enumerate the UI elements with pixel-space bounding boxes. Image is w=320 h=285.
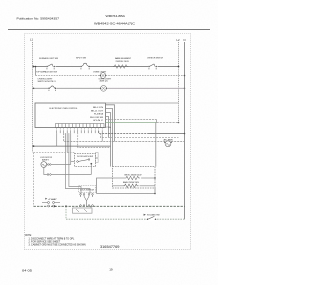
motor M2 convection fan: [164, 139, 174, 147]
motor M1 lock motor: [40, 157, 53, 167]
notes block: [25, 235, 86, 247]
wire lock assembly dashed left: [33, 153, 35, 207]
wire stub to terminal block: [90, 206, 92, 208]
svg-text:19: 19: [109, 267, 113, 271]
wire motor to connector: [46, 164, 49, 166]
wire EOC neutral feed green: [106, 122, 180, 124]
svg-text:316547769: 316547769: [100, 245, 120, 249]
wire lock motor feed: [33, 145, 111, 147]
switch S4 oven light switch: [48, 86, 56, 90]
wire element box right drop: [154, 188, 156, 194]
node arrow terminal on lower rung: [54, 205, 56, 207]
wire oven light rung: [36, 75, 101, 77]
svg-text:WRF54-8BA: WRF54-8BA: [106, 14, 127, 18]
wire light to N green: [107, 87, 184, 89]
wire EOC bottom pin stubs: [57, 127, 102, 130]
wire element box left drop: [97, 178, 113, 194]
wire EOC line L2 feed: [106, 120, 157, 123]
wire pin to bus4: [56, 133, 58, 146]
node junction rung2 N: [184, 75, 186, 77]
op-amp U1 electronic oven control box: [35, 103, 106, 128]
svg-text:Publication No: 5995434357: Publication No: 5995434357: [17, 17, 60, 21]
svg-text:N: N: [184, 38, 186, 42]
switch S3 oven door switch rung1: [147, 58, 163, 70]
wire drop to door switch line: [65, 206, 67, 219]
wire motor bottom: [44, 167, 47, 174]
schematic border frame: [25, 34, 191, 250]
wire pin to latch sw 1: [69, 133, 81, 193]
pin header EOC bottom comb: [56, 124, 105, 128]
wire EOC pin 1: [106, 105, 115, 142]
svg-text:ASSY: ASSY: [42, 159, 50, 162]
svg-text:SWITCH NOTE 3: SWITCH NOTE 3: [38, 81, 57, 83]
switch S2 oven thermostat: [76, 58, 90, 70]
wire L1 rail: [32, 42, 34, 153]
wire EOC pin 2: [106, 109, 113, 167]
svg-text:W-DOOR SW: W-DOOR SW: [90, 117, 103, 119]
wire N rail: [184, 42, 186, 219]
wire L2 rail: [178, 42, 180, 123]
svg-text:BK-L1 IN: BK-L1 IN: [93, 107, 104, 109]
wire motor wire right: [51, 164, 71, 166]
svg-text:1. DISCONNECT WIRE AT TERM B T: 1. DISCONNECT WIRE AT TERM B TO OPL: [29, 237, 76, 240]
svg-text:04 05: 04 05: [22, 268, 32, 272]
svg-text:DOOR LATCH SW: DOOR LATCH SW: [77, 155, 93, 158]
svg-text:LOCK SWITCH: LOCK SWITCH: [80, 190, 95, 192]
svg-text:2585W 240V: 2585W 240V: [116, 61, 130, 63]
svg-text:L2: L2: [177, 38, 180, 42]
resistor E1 bake element: [113, 57, 132, 68]
wire drop rung1 to rung2: [35, 67, 37, 76]
label pin id ticks: [57, 130, 102, 133]
svg-text:WB4942-SC-4644A(7)C: WB4942-SC-4644A(7)C: [94, 21, 136, 25]
wire fan to N dashed: [171, 141, 184, 143]
wire broil return rung: [97, 193, 156, 195]
label latch switch box: [79, 186, 96, 193]
terminal block TB1: [73, 208, 93, 213]
wire light switch rung: [33, 87, 101, 89]
switch S1 surface unit switch: [39, 57, 58, 69]
wire EOC pin 3: [106, 113, 111, 167]
node junction L1 rung1: [33, 66, 35, 68]
svg-text:L1: L1: [30, 38, 33, 42]
switch S5 oven door switch: [144, 214, 160, 222]
wire dashed bus 2: [100, 133, 178, 137]
connector P2 4-way: [42, 198, 60, 207]
wire door switch line: [66, 218, 185, 220]
svg-text:BROIL 3400W 240V: BROIL 3400W 240V: [125, 174, 143, 176]
svg-text:2. FOR SERVICE SEE SHEET: 2. FOR SERVICE SEE SHEET: [29, 241, 61, 243]
wire main lower rung: [34, 205, 185, 207]
svg-text:TOP SURFACE UNIT SW: TOP SURFACE UNIT SW: [36, 71, 58, 74]
wire EOC pin 4: [106, 117, 109, 138]
node junction rung1 drop: [35, 66, 37, 68]
svg-text:BK-L1 OUT: BK-L1 OUT: [91, 110, 104, 112]
relay K1 latch switch box: [75, 153, 99, 175]
node junction L2 rung1: [178, 66, 180, 68]
wire pin to lock motor 1: [66, 133, 68, 152]
svg-text:3. CABINET GRD MUST BE CONNECT: 3. CABINET GRD MUST BE CONNECTED AS SHOW…: [29, 244, 87, 247]
switch S6 latch contacts: [80, 194, 94, 207]
wire fan drop: [155, 123, 157, 167]
wire lock assembly dashed top: [34, 152, 75, 154]
svg-text:SPDT SW: SPDT SW: [76, 58, 87, 60]
svg-text:SOL AND SW: SOL AND SW: [147, 214, 160, 217]
svg-text:OVEN DR SWITCH: OVEN DR SWITCH: [147, 58, 163, 60]
wire pin stub to bus3: [101, 133, 103, 141]
svg-text:OVEN LIGHT: OVEN LIGHT: [93, 71, 107, 73]
wire EOC L2 top feed: [106, 102, 179, 104]
svg-text:GY-N C: GY-N C: [93, 120, 104, 122]
node connector pins motor: [48, 164, 50, 166]
svg-text:SURFACE UNIT SW: SURFACE UNIT SW: [39, 57, 58, 60]
wire pin to probe box: [70, 133, 72, 161]
lamp DS1 oven light: [100, 73, 106, 79]
wire dashed bus 1: [99, 131, 186, 134]
svg-text:40W (2): 40W (2): [100, 81, 108, 83]
wire oven light to N: [106, 75, 185, 77]
svg-text:NOTE:: NOTE:: [25, 235, 32, 237]
wire bake circuit rung: [33, 66, 179, 68]
svg-text:R-DB A: R-DB A: [94, 113, 104, 116]
svg-text:4 WAY: 4 WAY: [48, 198, 58, 201]
label EOC pin names column: [90, 107, 104, 122]
svg-text:BAKE ELEMENT: BAKE ELEMENT: [115, 57, 132, 60]
resistor broil element box: [113, 167, 156, 189]
lamp DS2 oven light 2: [101, 85, 107, 91]
svg-text:ELECTRONIC OVEN CONTROL: ELECTRONIC OVEN CONTROL: [50, 108, 79, 110]
wire pin to bus5 dashed: [78, 130, 111, 148]
header rule: [8, 29, 210, 31]
node junction rung3 L1: [33, 88, 35, 90]
wire dashed bus 3: [64, 133, 165, 141]
wire pin to latch sw 2: [65, 133, 90, 193]
